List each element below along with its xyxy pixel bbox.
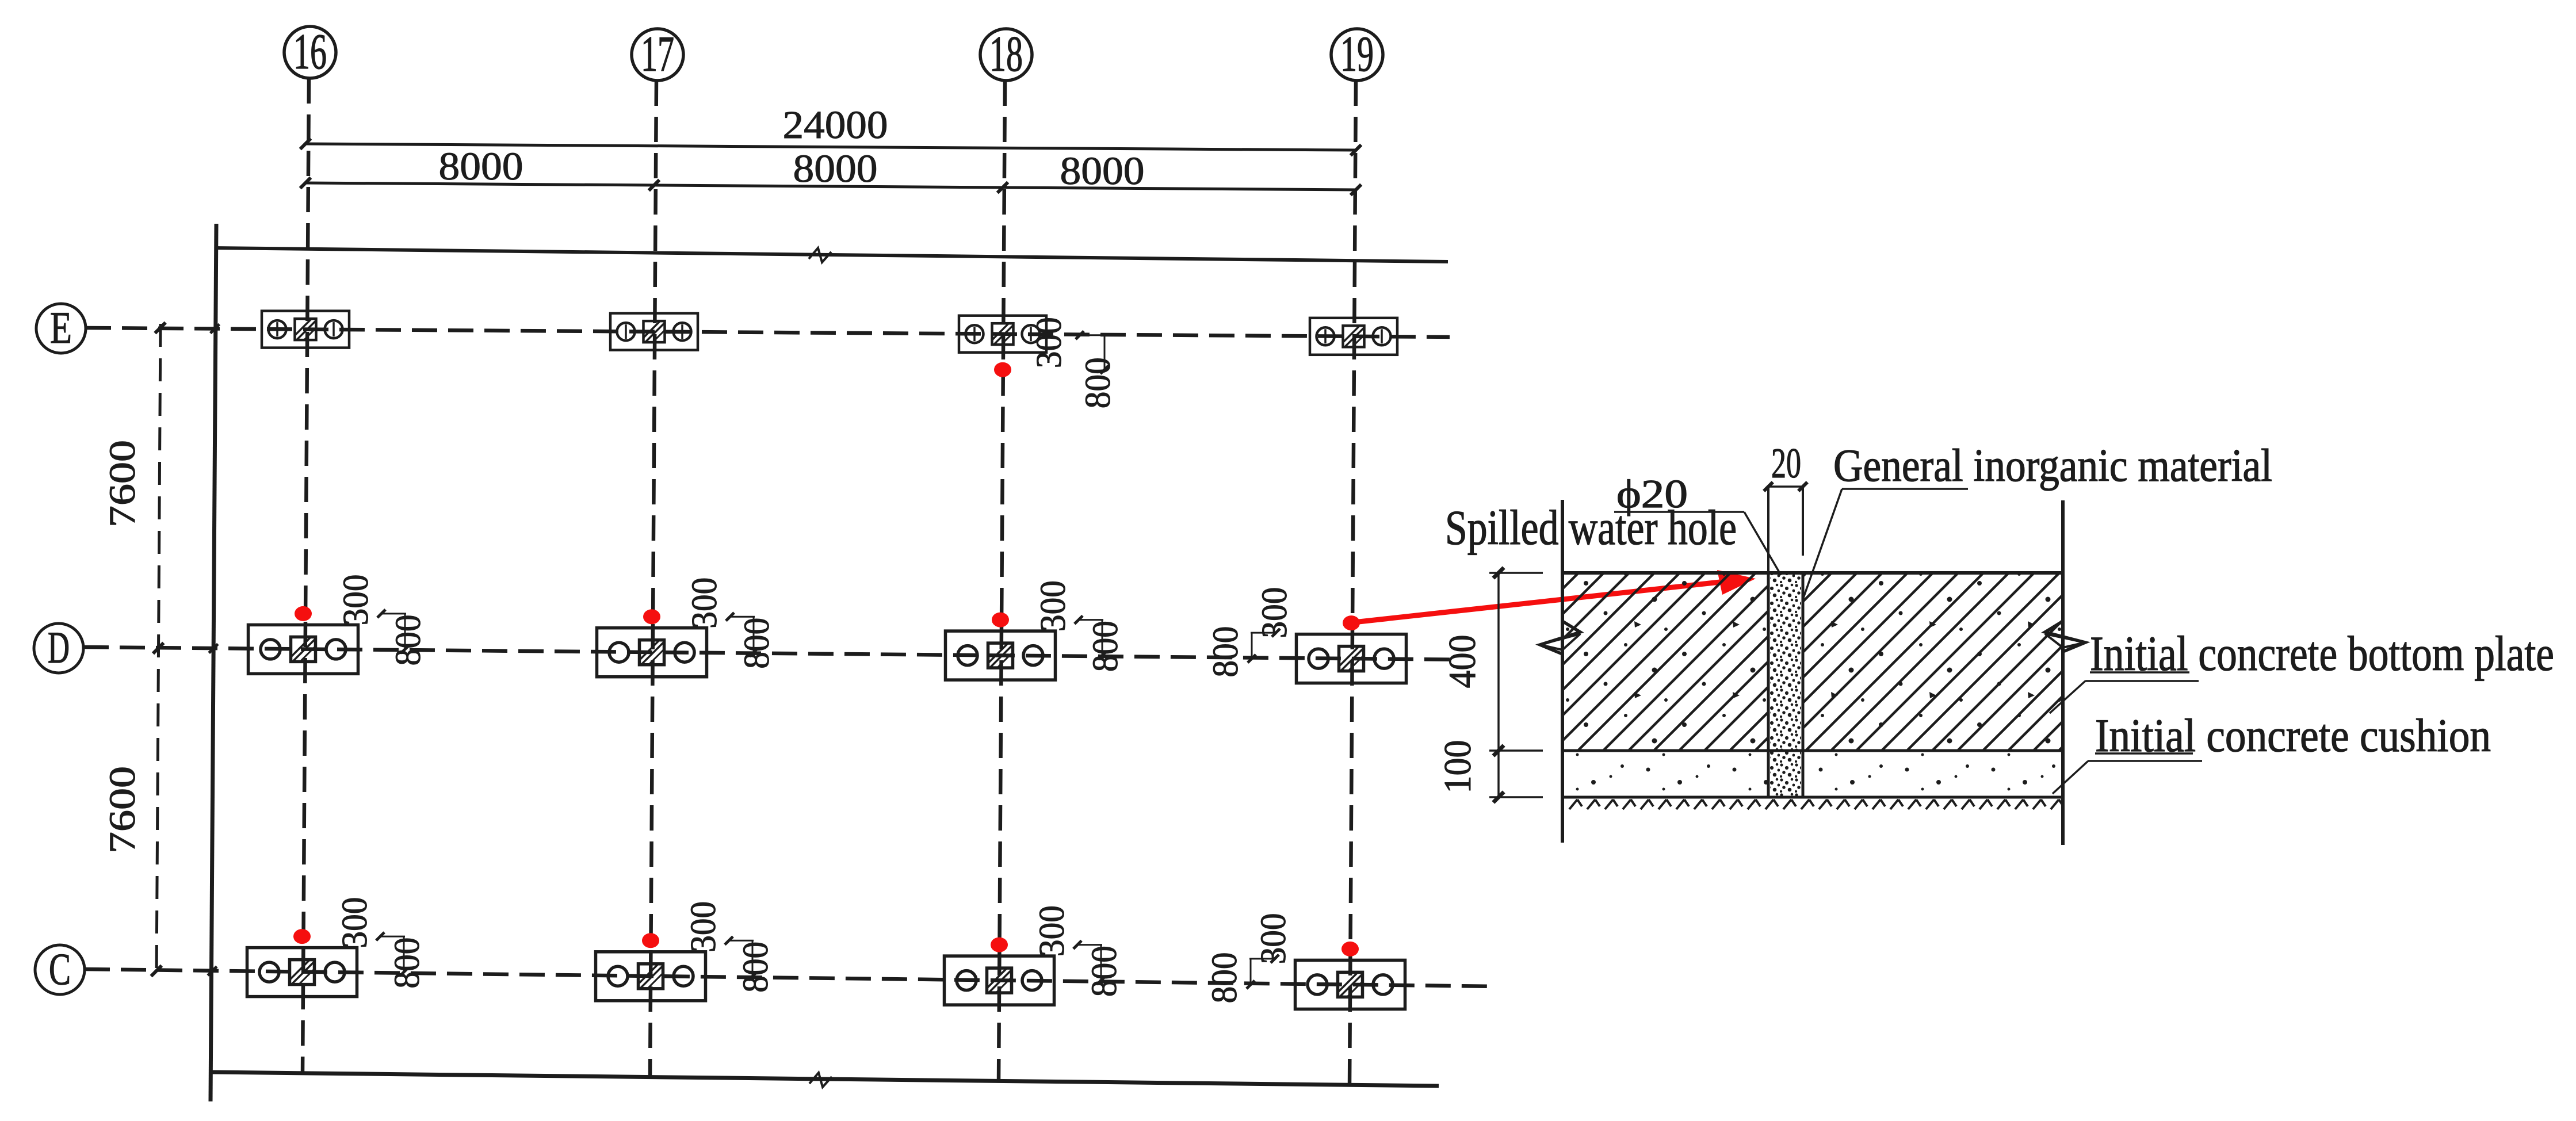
svg-text:24000: 24000 xyxy=(783,103,888,147)
svg-text:800: 800 xyxy=(389,614,428,665)
svg-text:300: 300 xyxy=(1254,913,1293,964)
svg-text:16: 16 xyxy=(293,24,327,80)
svg-text:7600: 7600 xyxy=(102,440,143,527)
svg-text:7600: 7600 xyxy=(102,766,143,854)
svg-text:17: 17 xyxy=(641,26,674,82)
svg-text:300: 300 xyxy=(337,574,376,625)
svg-text:8000: 8000 xyxy=(439,144,523,188)
svg-text:300: 300 xyxy=(1255,587,1294,638)
svg-text:18: 18 xyxy=(989,26,1023,82)
svg-text:800: 800 xyxy=(1085,946,1124,997)
svg-text:Spilled water hole: Spilled water hole xyxy=(1445,500,1737,555)
svg-text:800: 800 xyxy=(1205,952,1244,1003)
svg-text:800: 800 xyxy=(737,618,777,669)
svg-text:C: C xyxy=(49,944,71,994)
svg-text:20: 20 xyxy=(1771,440,1801,487)
svg-text:800: 800 xyxy=(1206,626,1245,678)
svg-text:800: 800 xyxy=(736,942,775,993)
svg-text:D: D xyxy=(48,622,70,672)
svg-text:19: 19 xyxy=(1340,26,1374,82)
svg-text:General inorganic material: General inorganic material xyxy=(1833,441,2272,491)
svg-text:800: 800 xyxy=(1086,621,1125,672)
svg-text:400: 400 xyxy=(1441,635,1484,688)
svg-text:8000: 8000 xyxy=(793,147,878,190)
svg-text:300: 300 xyxy=(684,901,723,952)
svg-text:300: 300 xyxy=(1033,905,1072,957)
svg-text:100: 100 xyxy=(1436,740,1479,794)
svg-text:300: 300 xyxy=(1034,580,1073,632)
svg-text:800: 800 xyxy=(1079,357,1118,408)
svg-text:300: 300 xyxy=(685,577,724,629)
svg-text:300: 300 xyxy=(335,897,374,948)
svg-text:300: 300 xyxy=(1030,317,1069,368)
svg-text:800: 800 xyxy=(388,938,427,989)
svg-text:E: E xyxy=(50,303,72,353)
svg-text:8000: 8000 xyxy=(1060,149,1145,193)
